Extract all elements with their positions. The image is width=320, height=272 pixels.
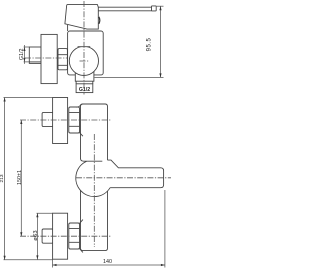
- svg-text:G1/2: G1/2: [79, 87, 90, 93]
- svg-text:213: 213: [0, 174, 5, 182]
- svg-text:150±1: 150±1: [17, 170, 23, 185]
- svg-text:140: 140: [103, 259, 112, 265]
- svg-text:95.5: 95.5: [146, 38, 152, 52]
- svg-text:G1/2: G1/2: [19, 48, 25, 60]
- svg-text:ø63: ø63: [33, 230, 39, 241]
